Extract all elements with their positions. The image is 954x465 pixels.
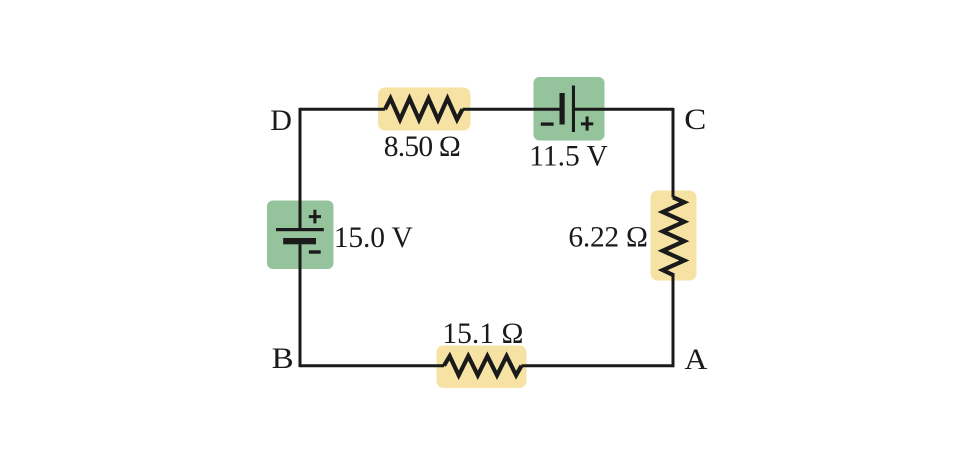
highlight box for resistor 15.1Ω <box>437 346 527 389</box>
battery 11.5V negative plate (short thick) <box>560 93 565 125</box>
battery 15.0V plus sign <box>309 210 321 224</box>
svg-text:6.22 Ω: 6.22 Ω <box>568 222 648 254</box>
svg-text:A: A <box>684 343 707 376</box>
highlight box for battery 15.0V <box>267 201 334 270</box>
battery 15.0V positive plate (long thin) <box>276 228 324 231</box>
wire top-left segment D to resistor <box>300 108 385 111</box>
wire right upper segment C to resistor <box>672 108 675 198</box>
battery 11.5V plus sign <box>581 117 593 131</box>
battery 11.5V minus sign <box>541 122 554 125</box>
svg-text:15.1 Ω: 15.1 Ω <box>442 318 523 350</box>
value label 15.1 Ω <box>442 318 523 350</box>
battery 15.0V negative plate (short thick) <box>283 238 316 244</box>
wire bottom-left segment resistor to B <box>300 364 444 367</box>
resistor 8.50Ω zigzag <box>385 98 463 119</box>
highlight box for resistor 8.50Ω <box>378 88 471 131</box>
value label 6.22 Ω <box>568 222 648 254</box>
node D label <box>270 104 292 137</box>
wire bottom-right segment A to resistor <box>522 364 675 367</box>
wire right lower segment resistor to A <box>672 273 675 367</box>
node A label <box>684 343 707 376</box>
wire top-right segment battery to C <box>575 108 673 111</box>
svg-text:D: D <box>270 104 292 137</box>
value label 11.5 V <box>529 141 608 173</box>
wire top-middle segment resistor to battery <box>463 108 560 111</box>
value label 8.50 Ω <box>384 131 461 163</box>
value label 15.0 V <box>334 222 413 254</box>
svg-text:B: B <box>272 342 294 375</box>
node C label <box>684 103 706 136</box>
battery 11.5V positive plate (long thin) <box>572 86 575 133</box>
svg-text:8.50 Ω: 8.50 Ω <box>384 131 461 163</box>
wire left upper segment D to battery <box>299 108 302 230</box>
svg-text:15.0 V: 15.0 V <box>334 222 413 254</box>
svg-text:C: C <box>684 103 706 136</box>
highlight box for resistor 6.22Ω <box>651 191 697 281</box>
node B label <box>272 342 294 375</box>
svg-text:11.5 V: 11.5 V <box>529 141 608 173</box>
highlight box for battery 11.5V <box>534 77 605 141</box>
battery 15.0V minus sign <box>309 250 321 253</box>
resistor 15.1Ω zigzag <box>444 356 522 375</box>
resistor 6.22Ω zigzag <box>663 197 685 275</box>
wire left lower segment battery to B <box>299 244 302 367</box>
